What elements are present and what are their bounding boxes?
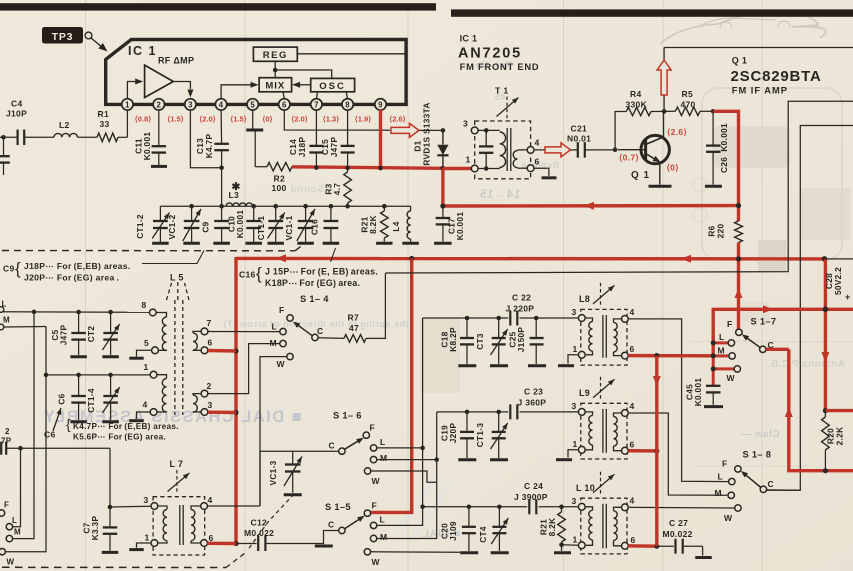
diode D1	[413, 102, 449, 166]
svg-text:3: 3	[463, 119, 468, 129]
capacitor C27	[657, 518, 703, 554]
riser x260 to S1-6 C node	[260, 451, 339, 506]
lower left contact L	[6, 516, 17, 530]
svg-text:M: M	[270, 338, 277, 348]
node line C7/L7 (y448)	[6, 446, 110, 451]
L5 lower-left winding	[157, 375, 167, 412]
wire L5 pin2 to S1-4 M	[208, 344, 280, 394]
red stub L5 pin6	[208, 349, 236, 353]
svg-text:W: W	[727, 373, 736, 383]
red feed corner to right rail	[713, 305, 853, 356]
red bus AGC return (y205)	[440, 202, 741, 210]
svg-text:L: L	[719, 332, 725, 342]
svg-text:K8.2P: K8.2P	[448, 327, 458, 352]
svg-text:L 5: L 5	[170, 273, 184, 283]
IF row2 node line	[437, 410, 579, 415]
svg-text:C6: C6	[57, 393, 67, 404]
C27 ground	[695, 546, 712, 557]
node Q1 base junction	[613, 147, 618, 152]
resistor R6	[707, 221, 743, 243]
lower left contact F	[0, 501, 9, 517]
red bus band-switch feed (y258)	[236, 254, 827, 262]
wire to contact L lower	[13, 448, 21, 527]
svg-text:W: W	[724, 513, 733, 523]
red wire L10 pin6 to C27 node	[628, 544, 659, 549]
svg-text:S 1–5: S 1–5	[325, 502, 351, 512]
svg-text:F: F	[372, 501, 378, 511]
svg-text:R4: R4	[630, 89, 641, 99]
L5 pin 1	[144, 362, 158, 378]
switch S1-7	[718, 317, 777, 384]
capacitor C22 (series)	[506, 293, 535, 326]
T1 primary winding	[478, 130, 506, 168]
note C16 variants	[239, 248, 378, 288]
svg-text:C: C	[768, 479, 774, 489]
svg-text:R5: R5	[682, 89, 693, 99]
L7 left winding	[158, 506, 167, 543]
capacitor C17	[436, 206, 465, 242]
L5 pin4 ground	[129, 412, 150, 421]
S1-7 wiper arm	[742, 334, 760, 347]
red wire L9 pin6 to riser	[628, 448, 659, 453]
red riser to L5/L7 (x236)	[233, 257, 238, 546]
wire S1-5 C to ground	[315, 531, 339, 547]
svg-text:C: C	[329, 441, 335, 451]
title IC1 AN7205 FM FRONT END	[458, 34, 539, 73]
L5 pin 2	[201, 381, 211, 397]
wire S1-6 L to riser	[377, 446, 425, 451]
red wire pin9 down to bus	[378, 110, 383, 171]
svg-text:M: M	[380, 453, 387, 463]
capacitor C7	[82, 516, 118, 551]
switch S1-4	[270, 294, 330, 369]
wire OSC to pin8	[346, 92, 347, 99]
wire S1-4 C to R7	[318, 337, 344, 340]
svg-text:C: C	[328, 520, 334, 530]
transformer T1	[475, 86, 531, 179]
svg-text:J 3900P: J 3900P	[514, 492, 548, 502]
svg-text:J47P: J47P	[329, 137, 339, 158]
red stub L7 pin6	[208, 542, 237, 546]
note C9 variants	[3, 251, 204, 283]
svg-text:OSC: OSC	[319, 81, 346, 92]
svg-text:VC1-1: VC1-1	[284, 215, 294, 240]
node R5/C26/red feed	[711, 109, 716, 114]
svg-text:2: 2	[5, 427, 10, 436]
svg-text:CT4: CT4	[478, 526, 488, 543]
svg-text:Q 1: Q 1	[631, 170, 650, 181]
svg-text:5: 5	[250, 101, 255, 110]
red wire bus to T1 pin1	[443, 167, 472, 170]
trimmer CT4	[478, 507, 508, 551]
L7 pin 4	[201, 495, 213, 509]
L8 pin 3	[572, 307, 586, 321]
wire base node up to R4	[615, 112, 626, 150]
L5 pin 5	[144, 338, 158, 354]
wire R7 to AGC net riser	[366, 273, 385, 338]
svg-text:L9: L9	[579, 388, 590, 398]
L5 pin5 ground	[129, 350, 151, 358]
T1 pin4 output wire	[534, 149, 577, 151]
svg-text:4: 4	[219, 101, 224, 110]
svg-text:CT1-3: CT1-3	[475, 423, 485, 448]
svg-text:S 1– 6: S 1– 6	[333, 411, 362, 421]
svg-text:4: 4	[535, 138, 540, 148]
capacitor C20	[440, 507, 476, 551]
wire S1-6 W jog	[371, 471, 437, 482]
block REG	[253, 47, 297, 61]
svg-text:M: M	[14, 528, 21, 537]
svg-text:L: L	[272, 322, 278, 332]
capacitor C11	[134, 110, 167, 165]
top border bar left segment	[0, 3, 436, 10]
svg-text:C21: C21	[571, 124, 588, 134]
svg-text:C 23: C 23	[524, 387, 543, 397]
L10 pin 1	[573, 535, 586, 549]
wire L10 pin4 to S1-8 W	[628, 506, 734, 509]
svg-text:6: 6	[535, 157, 540, 167]
svg-text:R7: R7	[348, 313, 359, 323]
wire S1-5 W to ground rail	[371, 551, 460, 554]
riser x422.6 (band L)	[378, 318, 425, 525]
antenna input wire	[0, 135, 17, 140]
svg-text:1: 1	[125, 101, 130, 110]
svg-text:J109: J109	[448, 521, 458, 541]
svg-text:{: {	[66, 416, 71, 432]
IC1 pin 5	[247, 99, 258, 110]
wire L8 pin4 to S1-8 L	[628, 319, 728, 482]
svg-text:⟨1.3⟩: ⟨1.3⟩	[323, 115, 340, 124]
T1 internal capacitor	[479, 128, 494, 171]
T1 core	[507, 128, 511, 171]
IC1 pin 1	[122, 99, 133, 110]
svg-text:N0.01: N0.01	[567, 134, 591, 144]
vertical W-net (x46)	[6, 327, 47, 552]
capacitor C26	[706, 111, 729, 184]
svg-text:⟨0⟩: ⟨0⟩	[667, 163, 679, 173]
svg-text:C: C	[317, 326, 323, 336]
svg-text:2: 2	[207, 381, 212, 391]
svg-text:220: 220	[716, 224, 726, 239]
svg-text:K0.001: K0.001	[142, 132, 152, 161]
svg-text:1: 1	[573, 535, 578, 545]
lower left contact M	[6, 528, 21, 542]
switch S1-6	[329, 411, 388, 487]
svg-text:J150P: J150P	[516, 327, 526, 353]
note C6 variants	[44, 408, 179, 442]
svg-text:J 360P: J 360P	[518, 398, 547, 408]
svg-text:R2: R2	[274, 174, 285, 184]
transformer L7	[153, 459, 205, 555]
L5 upper-right winding	[193, 331, 201, 350]
red wire S1-7 C down	[766, 349, 853, 473]
block OSC	[311, 78, 355, 92]
svg-text:K4.7P: K4.7P	[204, 134, 214, 159]
signal arrow into detector (hollow red)	[391, 123, 419, 137]
svg-text:J10P: J10P	[6, 109, 27, 119]
svg-text:1: 1	[145, 533, 150, 543]
AGC net line to right box	[385, 101, 853, 273]
svg-text:⟨2.6⟩: ⟨2.6⟩	[667, 127, 687, 137]
svg-text:8.2K: 8.2K	[368, 215, 378, 234]
S1-8 contact C	[760, 486, 766, 492]
svg-text:RF ΔMP: RF ΔMP	[158, 56, 194, 66]
C45 ground	[704, 405, 723, 408]
wire S1-6 M to riser	[377, 457, 439, 462]
S1-8 contact L	[729, 478, 735, 484]
capacitor C28 wire	[824, 259, 853, 302]
svg-text:C12: C12	[251, 518, 268, 528]
wire pin1 to RF AMP input	[127, 79, 143, 100]
svg-text:J 220P: J 220P	[506, 304, 535, 314]
trimmer CT1-2	[135, 206, 170, 242]
IC1 pin 8	[342, 99, 353, 110]
Q1 voltage labels	[619, 127, 687, 173]
svg-text:8: 8	[142, 300, 147, 310]
svg-text:⟨2.0⟩: ⟨2.0⟩	[199, 115, 216, 124]
S1-7 contact W	[734, 366, 740, 372]
supply arrow (hollow red)	[657, 60, 671, 95]
svg-text:330K: 330K	[626, 100, 648, 110]
svg-text:2.2K: 2.2K	[835, 427, 845, 446]
L7 right winding	[191, 506, 201, 543]
L5 pin 6	[201, 338, 212, 354]
red riser to S1-5 F (x411.7)	[371, 259, 412, 513]
transformer L10	[576, 472, 627, 554]
svg-text:Claw —: Claw —	[740, 429, 779, 440]
inductor L4	[391, 206, 411, 241]
trimmer CT3	[475, 318, 508, 364]
IC IC1 outline	[106, 40, 406, 105]
L5 pin 8	[142, 300, 157, 316]
svg-text:C26 K0.001: C26 K0.001	[719, 123, 729, 173]
svg-text:470: 470	[681, 100, 696, 110]
transformer L5	[167, 273, 190, 416]
svg-text:M: M	[715, 488, 722, 498]
svg-text:W: W	[372, 476, 381, 486]
svg-text:C16: C16	[310, 219, 320, 235]
svg-text:Q 1: Q 1	[732, 56, 747, 66]
svg-text:9: 9	[378, 101, 383, 110]
L5 lower-right winding	[193, 394, 201, 413]
wire pin6 to mixer input line	[284, 110, 390, 131]
svg-text:K0.001: K0.001	[235, 210, 245, 239]
svg-text:✱: ✱	[232, 181, 241, 193]
svg-text:J18P: J18P	[297, 137, 307, 158]
svg-text:{: {	[256, 264, 262, 283]
wire R21 to L10 pin1	[562, 544, 579, 547]
red wire D1 node down to bus2	[441, 168, 444, 207]
IC1 pin 6	[279, 99, 290, 110]
transformer L8	[579, 283, 627, 365]
svg-text:4: 4	[630, 307, 635, 317]
svg-text:W: W	[277, 359, 286, 369]
svg-text:VC1-2: VC1-2	[167, 214, 177, 239]
svg-text:F: F	[4, 501, 9, 510]
node line A (L5 pin8)	[0, 310, 149, 315]
svg-text:S 1–7: S 1–7	[751, 317, 777, 327]
capacitor C25	[508, 318, 544, 364]
red branch x825 down from bus3	[821, 259, 853, 413]
L7 pin 1	[145, 533, 158, 547]
S1-7 contact C	[760, 346, 766, 352]
wire MIX to pin6	[283, 92, 284, 99]
trimmer CT1-1	[256, 204, 285, 242]
svg-text:K4.7P⋯ For (E,EB) areas.: K4.7P⋯ For (E,EB) areas.	[73, 422, 179, 431]
wire pin3 L-bend to C13 node	[190, 110, 221, 168]
ground below C26	[705, 185, 722, 188]
inner box lower net	[767, 126, 853, 491]
variable capacitor VC1-1	[284, 204, 315, 242]
wire REG to MIX and OSC	[273, 61, 332, 78]
Q1 emitter ground	[649, 185, 672, 188]
svg-text:8.2K: 8.2K	[547, 518, 557, 537]
svg-text:CT1-4: CT1-4	[86, 388, 96, 413]
edge capacitor at left margin	[0, 137, 10, 175]
IC1 pin 2	[153, 99, 164, 110]
L5 upper-left winding	[156, 313, 166, 351]
svg-text:T 1: T 1	[495, 86, 508, 96]
S1-7 contact L	[728, 340, 734, 346]
L10 pin 4	[622, 496, 635, 511]
svg-text:8: 8	[345, 101, 350, 110]
capacitor C14	[288, 110, 323, 168]
trimmer CT1-4	[86, 375, 120, 420]
svg-text:⟨1.9⟩: ⟨1.9⟩	[355, 115, 372, 124]
L8 pin 6	[622, 344, 635, 359]
T1 pin 6	[527, 157, 539, 172]
wire pin4 to MIX input	[221, 82, 259, 99]
svg-text:F: F	[370, 423, 376, 433]
ground below C17	[434, 242, 452, 245]
svg-text:Sound: Sound	[290, 184, 324, 195]
wire L7 pin4 to VC1-3 node	[208, 505, 261, 507]
inductor L2	[54, 120, 97, 137]
svg-text:L: L	[380, 437, 386, 447]
red S1-7 contact stubs	[711, 340, 734, 385]
svg-text:FM IF AMP: FM IF AMP	[732, 86, 788, 96]
red bus B+ (pins 7-9 to T1)	[292, 165, 443, 170]
capacitor C5	[50, 312, 86, 355]
block MIX	[259, 78, 292, 92]
L9 pin 1	[573, 439, 586, 453]
svg-text:⟨1.5⟩: ⟨1.5⟩	[230, 115, 247, 124]
svg-text:C9: C9	[3, 264, 14, 274]
capacitor C19	[440, 412, 475, 458]
svg-text:6: 6	[630, 440, 635, 450]
svg-text:50V2.2: 50V2.2	[833, 267, 843, 295]
capacitor C21	[567, 124, 615, 158]
svg-text:47: 47	[349, 323, 359, 333]
top border bar right segment	[451, 9, 853, 16]
L10 pin 6	[622, 535, 636, 549]
svg-text:L: L	[380, 515, 386, 525]
capacitor C15	[320, 110, 355, 172]
svg-text:6: 6	[209, 533, 214, 543]
T1 pin 3	[463, 119, 478, 134]
L5 pin 4	[143, 400, 158, 416]
S1-8 wiper arm	[741, 471, 761, 488]
T1 pin6 ground	[534, 168, 557, 178]
capacitor C10	[227, 204, 262, 242]
riser x436.7 (band M)	[378, 412, 437, 539]
resistor R5	[664, 89, 713, 116]
IC1 pin 4	[215, 99, 226, 110]
svg-text:J18P⋯ For (E,EB) areas.: J18P⋯ For (E,EB) areas.	[24, 261, 131, 271]
red stub L5 pin3	[208, 411, 236, 415]
svg-text:K5.6P⋯ For (EG) area.: K5.6P⋯ For (EG) area.	[73, 433, 166, 442]
svg-text:7: 7	[314, 101, 319, 110]
svg-text:K18P⋯ For (EG) area.: K18P⋯ For (EG) area.	[265, 278, 360, 288]
mechanical gang dashed line	[2, 245, 303, 251]
wire pin5 bar to R2	[254, 132, 256, 167]
svg-text:M: M	[3, 316, 10, 325]
capacitor C16	[310, 204, 339, 242]
ground below C11	[151, 165, 167, 168]
svg-text:J47P: J47P	[59, 325, 69, 346]
capacitor C23 (series)	[510, 387, 546, 420]
svg-text:CT1-1: CT1-1	[256, 216, 266, 241]
svg-text:M: M	[718, 346, 725, 356]
svg-text:K0.001: K0.001	[455, 212, 465, 241]
svg-text:W: W	[372, 557, 381, 567]
svg-text:MIX: MIX	[265, 81, 285, 92]
op-amp RF AMP triangle	[145, 56, 195, 98]
red arrow up on feed	[735, 288, 743, 298]
L8 pin1 ground	[558, 355, 578, 366]
wire S1-4 W down to L7 pin4 node	[260, 357, 287, 506]
trimmer CT2	[86, 312, 120, 355]
L8 pin 1	[573, 344, 586, 358]
resistor R4	[626, 89, 665, 116]
svg-text:4: 4	[630, 401, 635, 411]
svg-text:J20P⋯ For (EG) area .: J20P⋯ For (EG) area .	[24, 273, 119, 283]
IF row1 node line	[423, 316, 579, 321]
svg-text:3: 3	[208, 400, 213, 410]
junction D1/T1/bus	[440, 166, 445, 171]
svg-text:100: 100	[272, 183, 287, 193]
svg-text:⟨2.0⟩: ⟨2.0⟩	[291, 115, 308, 124]
variable capacitor VC1-2	[167, 204, 201, 242]
svg-text:{: {	[15, 259, 21, 278]
svg-text:L: L	[718, 472, 724, 482]
svg-text:2SC829BTA: 2SC829BTA	[731, 68, 822, 85]
svg-text:REG: REG	[263, 50, 288, 61]
L9 pin 6	[622, 440, 635, 455]
L10 pin 3	[572, 496, 586, 510]
svg-text:1: 1	[144, 362, 149, 372]
resistor R20	[822, 411, 845, 471]
collector supply riser	[663, 48, 665, 112]
capacitor C6	[57, 375, 86, 420]
T1 pin 1	[466, 155, 479, 172]
svg-text:CT2: CT2	[86, 326, 96, 343]
svg-text:6: 6	[630, 344, 635, 354]
svg-text:3: 3	[572, 307, 577, 317]
svg-text:4: 4	[208, 495, 213, 505]
svg-text:⟨0.8⟩: ⟨0.8⟩	[135, 115, 152, 124]
capacitor C9	[201, 204, 230, 242]
L7 pin 3	[144, 495, 158, 509]
wire REG to IC right edge	[297, 53, 406, 55]
svg-text:W: W	[7, 558, 15, 567]
transistor Q1	[618, 111, 669, 184]
node line B (L5 pin1)	[44, 373, 150, 378]
capacitor C13	[195, 110, 229, 207]
wire R1 to pin1	[126, 110, 128, 138]
left edge contact L	[0, 300, 7, 313]
svg-text:+: +	[845, 292, 851, 302]
